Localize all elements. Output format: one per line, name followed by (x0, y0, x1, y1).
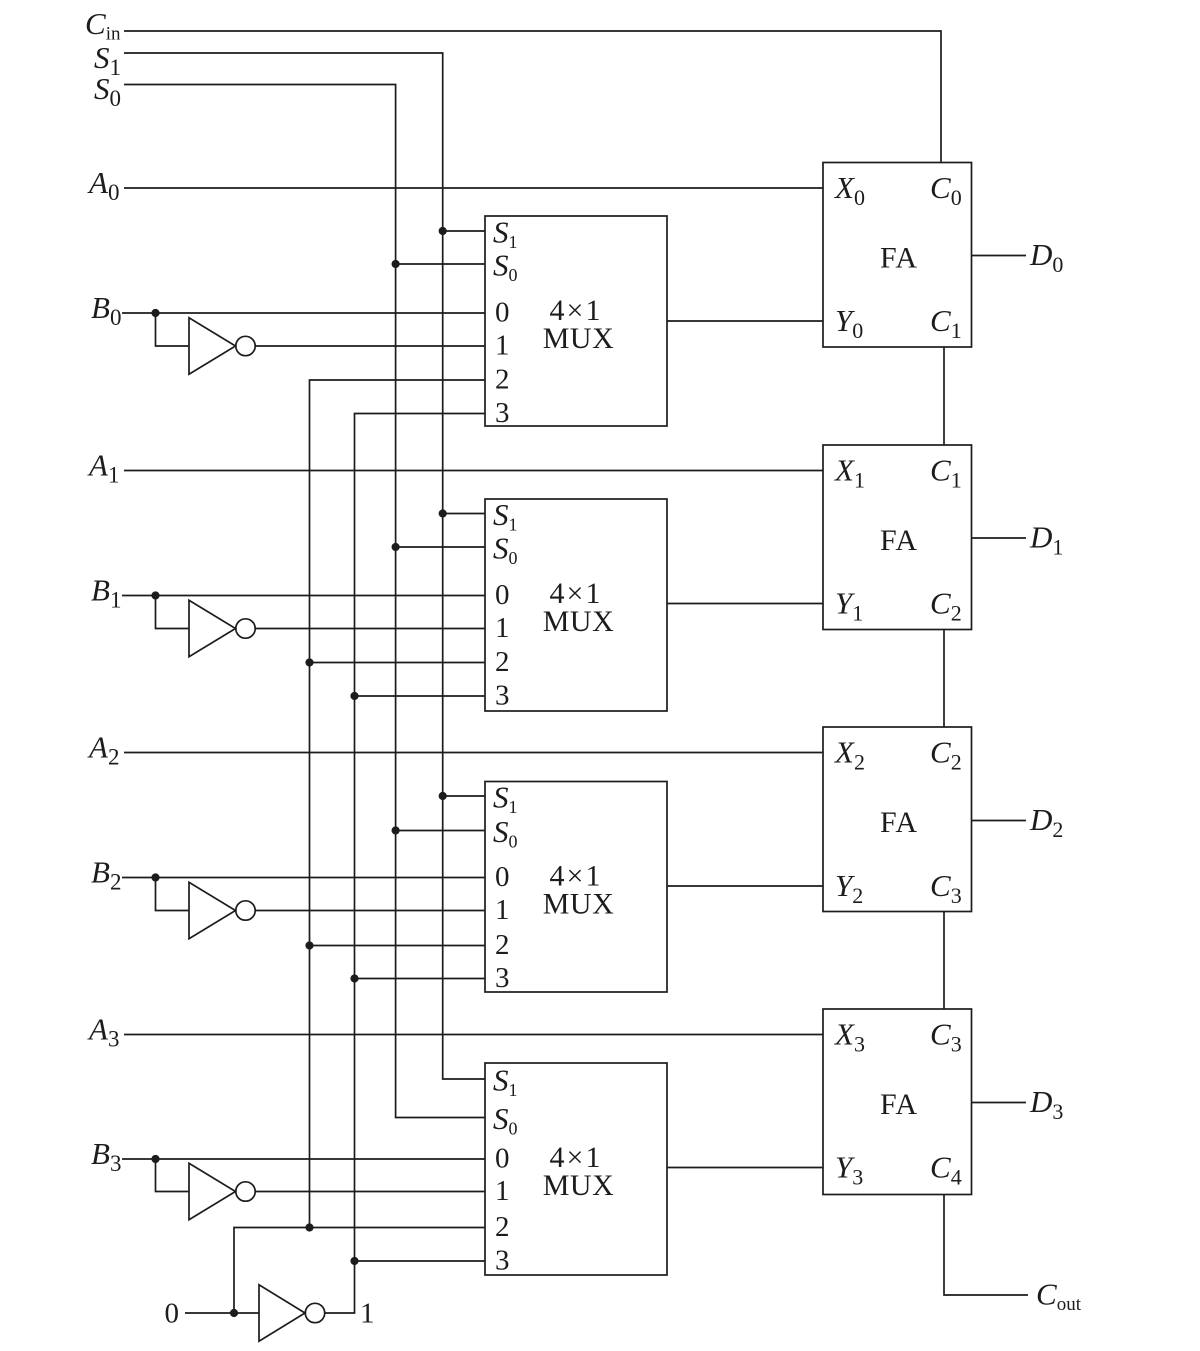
node Cout (1036, 1277, 1082, 1316)
wire inverter N4 output to MUX4 pin1 (255, 1191, 485, 1193)
svg-text:MUX: MUX (543, 888, 615, 921)
node B0 (91, 290, 121, 330)
junction constant-0 feed (230, 1309, 238, 1317)
svg-text:2: 2 (495, 1211, 510, 1243)
svg-text:FA: FA (880, 242, 918, 275)
junction B3 (151, 1155, 159, 1163)
svg-text:3: 3 (495, 680, 510, 712)
wire MUX1 output to Y0 (667, 320, 823, 322)
wire B0 to MUX1 pin0 (122, 312, 485, 314)
wire constant-1 bus (355, 414, 486, 1314)
node Cin (85, 6, 121, 45)
junction constant-0/MUX4 (305, 1223, 313, 1231)
wire A3 to X3 (124, 1034, 823, 1036)
wire D3 output (972, 1102, 1027, 1104)
svg-text:FA: FA (880, 806, 918, 839)
wire inverter N5 output to constant-1 bus (325, 1312, 356, 1314)
svg-text:3: 3 (495, 962, 510, 994)
wire A2 to X2 (124, 752, 823, 754)
svg-text:1: 1 (360, 1298, 375, 1330)
full-adder FA3 (823, 727, 972, 912)
junction B1 (151, 591, 159, 599)
inverter N3 (B2 complement) (189, 882, 255, 938)
node S0 (94, 71, 121, 111)
wire carry C2 (943, 630, 945, 728)
svg-text:MUX: MUX (543, 605, 615, 638)
svg-text:1: 1 (495, 1175, 510, 1207)
node S1 (94, 40, 121, 80)
junction B2 (151, 873, 159, 881)
node B2 (91, 855, 121, 895)
full-adder FA4 (823, 1009, 972, 1195)
wire constant-1 to MUX3 pin3 (355, 978, 486, 980)
svg-text:1: 1 (495, 894, 510, 926)
svg-text:0: 0 (495, 861, 510, 893)
wire S1 to MUX1 (443, 230, 485, 232)
wire Cin (124, 31, 941, 163)
svg-text:0: 0 (495, 297, 510, 329)
junction B0 (151, 309, 159, 317)
node A0 (87, 165, 119, 205)
node constant 0 (165, 1298, 180, 1330)
junction constant-0/MUX3 (305, 941, 313, 949)
wire A0 to X0 (124, 187, 823, 189)
wire D1 output (972, 537, 1027, 539)
wire constant-0 bus (310, 380, 486, 1228)
node D2 (1029, 802, 1063, 842)
junction constant-1/MUX4 (350, 1257, 358, 1265)
wire constant-0 to MUX4 pin2 (234, 1228, 485, 1314)
svg-text:2: 2 (495, 929, 510, 961)
wire carry C4 to Cout (944, 1195, 1028, 1296)
wire B0 to inverter (156, 313, 190, 346)
junction S0/MUX2 (392, 543, 400, 551)
wire A1 to X1 (124, 470, 823, 472)
wire D0 output (972, 255, 1027, 257)
wire S0 to MUX2 (396, 546, 485, 548)
node D0 (1029, 237, 1063, 277)
wire MUX2 output to Y1 (667, 603, 823, 605)
junction S1/MUX1 (439, 227, 447, 235)
node D1 (1029, 520, 1063, 560)
mux MUX2 4x1 (485, 497, 667, 712)
wire constant-0 to MUX2 pin2 (310, 662, 486, 664)
wire D2 output (972, 820, 1027, 822)
mux MUX4 4x1 (485, 1063, 667, 1277)
inverter N4 (B3 complement) (189, 1163, 255, 1219)
svg-text:0: 0 (495, 1143, 510, 1175)
wire S0 bus (124, 85, 485, 1118)
svg-text:0: 0 (495, 579, 510, 611)
wire S1 to MUX2 (443, 513, 485, 515)
wire constant-1 to MUX2 pin3 (355, 695, 486, 697)
svg-text:2: 2 (495, 646, 510, 678)
inverter N1 (B0 complement) (189, 318, 255, 374)
svg-text:FA: FA (880, 524, 918, 557)
svg-text:1: 1 (495, 330, 510, 362)
junction S1/MUX3 (439, 792, 447, 800)
wire inverter N1 output to MUX1 pin1 (255, 345, 485, 347)
wire S1 to MUX3 (443, 795, 485, 797)
junction S1/MUX2 (439, 509, 447, 517)
node A1 (87, 448, 119, 488)
junction S0/MUX3 (392, 826, 400, 834)
junction constant-1/MUX2 (350, 692, 358, 700)
wire B2 to inverter (156, 878, 190, 911)
wire inverter N2 output to MUX2 pin1 (255, 628, 485, 630)
node constant 1 (360, 1298, 375, 1330)
wire S0 to MUX1 (396, 263, 485, 265)
wire S1 bus (124, 53, 485, 1079)
inverter N5 (constant 1 generator) (259, 1285, 325, 1341)
svg-text:MUX: MUX (543, 322, 615, 355)
junction constant-1/MUX3 (350, 974, 358, 982)
wire B1 to MUX2 pin0 (122, 595, 485, 597)
svg-text:0: 0 (165, 1298, 180, 1330)
wire inverter N3 output to MUX3 pin1 (255, 910, 485, 912)
svg-text:FA: FA (880, 1088, 918, 1121)
wire constant-1 to MUX4 pin3 (355, 1260, 486, 1262)
full-adder FA1 (823, 163, 972, 348)
node B3 (91, 1136, 121, 1176)
full-adder FA2 (823, 445, 972, 630)
mux MUX3 4x1 (485, 780, 667, 995)
svg-text:1: 1 (495, 612, 510, 644)
svg-text:3: 3 (495, 1245, 510, 1277)
svg-text:3: 3 (495, 397, 510, 429)
wire B3 to MUX4 pin0 (122, 1158, 485, 1160)
svg-text:2: 2 (495, 364, 510, 396)
wire B1 to inverter (156, 596, 190, 629)
node A2 (87, 730, 119, 770)
svg-text:MUX: MUX (543, 1169, 615, 1202)
wire B2 to MUX3 pin0 (122, 877, 485, 879)
mux MUX1 4x1 (485, 215, 667, 430)
wire constant 0 to inverter N5 (185, 1312, 259, 1314)
inverter N2 (B1 complement) (189, 600, 255, 656)
wire MUX3 output to Y2 (667, 885, 823, 887)
wire carry C1 (943, 347, 945, 445)
wire B3 to inverter (156, 1159, 190, 1192)
wire constant-0 to MUX3 pin2 (310, 945, 486, 947)
wire S0 to MUX3 (396, 830, 485, 832)
wire MUX4 output to Y3 (667, 1167, 823, 1169)
node A3 (87, 1012, 119, 1052)
junction S0/MUX1 (392, 260, 400, 268)
junction constant-0/MUX2 (305, 658, 313, 666)
node D3 (1029, 1084, 1063, 1124)
wire carry C3 (943, 912, 945, 1010)
node B1 (91, 573, 121, 613)
